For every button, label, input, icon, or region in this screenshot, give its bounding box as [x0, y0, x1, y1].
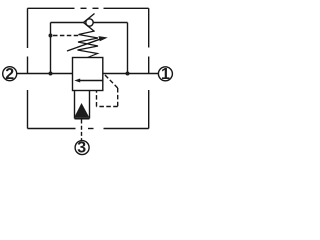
envelope left edge — [27, 8, 29, 128]
wire: dashed pilot right vertical — [117, 88, 119, 107]
check valve seat — [84, 14, 95, 32]
svg-text:2: 2 — [5, 66, 14, 83]
wire: dashed pilot bottom horizontal — [97, 106, 118, 108]
svg-text:3: 3 — [77, 140, 86, 157]
wire: dashed pilot diagonal from port 1 — [105, 75, 118, 88]
wire: dashed port 3 drain line — [81, 120, 83, 141]
envelope right edge — [148, 8, 150, 128]
check valve ball — [86, 19, 93, 26]
drain flow triangle — [74, 103, 89, 117]
wire: port 1 line — [103, 73, 159, 75]
svg-text:1: 1 — [161, 66, 170, 83]
envelope top edge — [28, 7, 149, 9]
valve internal flow arrow — [74, 79, 103, 83]
adjustment arrow — [67, 36, 108, 51]
port 3 — [75, 140, 89, 157]
node junction port 1 line — [126, 72, 130, 76]
node junction on port 2 branch — [49, 34, 53, 38]
port 2 — [3, 66, 17, 83]
spring — [78, 31, 99, 58]
envelope bottom edge — [28, 128, 149, 130]
wire: right vertical down to port 1 line — [127, 23, 129, 74]
node junction port 2 line — [49, 72, 53, 76]
wire: pilot branch vertical from port 2 line — [50, 23, 52, 74]
drain channel walls — [75, 91, 90, 119]
port 1 — [158, 66, 172, 83]
wire: check valve to right corner — [93, 22, 127, 24]
wire: dashed vent line — [53, 35, 81, 37]
main valve box — [73, 58, 103, 91]
wire: pilot top line to check valve — [51, 22, 84, 24]
wire: dashed pilot left vertical to box bottom — [96, 91, 98, 107]
wire: port 2 line — [17, 73, 73, 75]
